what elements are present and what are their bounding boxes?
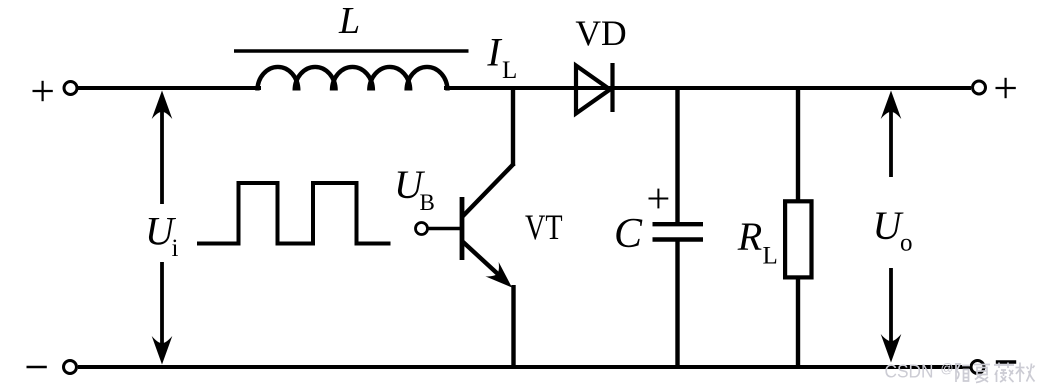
U_o arrow down: [889, 268, 893, 343]
wire top rail right segment: [444, 86, 971, 90]
svg-text:R: R: [737, 214, 762, 259]
watermark hanzi 1: [956, 363, 971, 382]
wire base: [428, 227, 461, 231]
wire collector vertical: [511, 86, 515, 166]
label + (output positive): [996, 78, 1016, 98]
diode VD: [576, 63, 613, 114]
base bar: [460, 197, 465, 260]
emitter arrowhead: [485, 262, 518, 295]
watermark hanzi 2: [974, 365, 990, 383]
svg-text:@: @: [941, 360, 954, 375]
label + (input positive): [33, 81, 53, 101]
inductor L: [257, 67, 447, 91]
collector diagonal: [463, 164, 515, 217]
watermark CSDN: [885, 360, 1035, 382]
svg-text:L: L: [763, 242, 778, 269]
svg-text:CSDN: CSDN: [885, 361, 934, 381]
U_o arrow up: [889, 104, 893, 177]
terminal top-right: [973, 81, 986, 94]
capacitor plates: [653, 222, 704, 226]
wire R bottom: [796, 277, 800, 365]
wire R top: [796, 86, 800, 202]
resistor R_L: [785, 86, 811, 365]
U_i arrow down: [160, 262, 164, 345]
wire emitter vertical: [511, 285, 515, 365]
svg-text:VD: VD: [575, 13, 626, 53]
transistor VT: [428, 86, 515, 365]
label - (output negative): [996, 360, 1016, 363]
terminal U_B: [416, 223, 428, 235]
terminal bottom-right: [971, 361, 984, 374]
svg-text:I: I: [486, 29, 502, 74]
watermark hanzi 4: [1016, 363, 1035, 383]
square wave drive signal: [197, 183, 391, 244]
label + (cap polarity): [649, 189, 669, 209]
wire cap top: [675, 86, 679, 222]
terminal bottom-left: [64, 361, 77, 374]
capacitor C: [653, 86, 704, 365]
wire bottom rail: [78, 365, 970, 369]
wire cap bottom: [675, 242, 679, 366]
svg-text:L: L: [338, 0, 360, 42]
svg-text:L: L: [502, 57, 517, 84]
watermark hanzi 3: [994, 363, 1014, 383]
U_i arrow up: [160, 104, 164, 204]
inductor overline: [234, 49, 469, 52]
wire top rail left segment: [78, 86, 261, 90]
svg-text:C: C: [614, 211, 643, 257]
svg-text:VT: VT: [525, 207, 563, 247]
terminal top-left: [64, 82, 77, 95]
svg-text:B: B: [420, 190, 435, 215]
svg-text:o: o: [900, 229, 913, 256]
emitter diagonal: [463, 242, 507, 282]
label - (input negative): [27, 366, 47, 368]
svg-text:i: i: [172, 235, 179, 262]
